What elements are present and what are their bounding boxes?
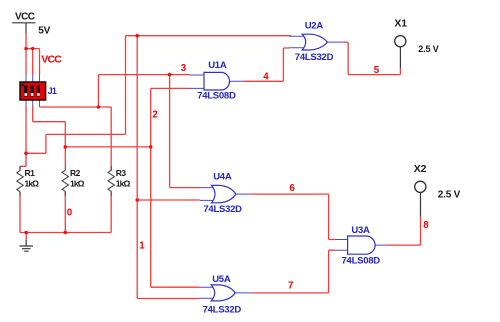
svg-text:X2: X2	[414, 163, 427, 175]
svg-text:2: 2	[152, 109, 157, 120]
svg-text:4: 4	[263, 71, 269, 82]
svg-text:U3A: U3A	[351, 225, 370, 236]
svg-text:1kΩ: 1kΩ	[70, 179, 85, 189]
svg-text:U4A: U4A	[213, 172, 232, 183]
svg-text:U5A: U5A	[212, 274, 231, 285]
svg-text:6: 6	[289, 183, 295, 194]
svg-text:74LS32D: 74LS32D	[295, 52, 334, 63]
svg-text:74LS32D: 74LS32D	[203, 305, 242, 316]
svg-text:3: 3	[181, 63, 187, 74]
svg-text:U1A: U1A	[208, 60, 227, 71]
svg-text:R3: R3	[116, 168, 127, 178]
svg-text:R2: R2	[70, 168, 81, 178]
svg-text:5V: 5V	[38, 25, 50, 36]
svg-text:74LS08D: 74LS08D	[342, 256, 381, 267]
svg-text:X1: X1	[394, 18, 407, 30]
svg-text:VCC: VCC	[15, 11, 35, 22]
svg-text:R1: R1	[25, 168, 36, 178]
svg-text:1: 1	[139, 240, 145, 251]
svg-text:J1: J1	[48, 86, 57, 96]
svg-text:1kΩ: 1kΩ	[116, 179, 131, 189]
svg-text:U2A: U2A	[305, 21, 324, 32]
svg-text:2.5 V: 2.5 V	[438, 190, 461, 201]
svg-text:1kΩ: 1kΩ	[25, 179, 40, 189]
svg-text:VCC: VCC	[41, 53, 62, 65]
svg-text:74LS08D: 74LS08D	[197, 91, 236, 102]
svg-text:0: 0	[67, 208, 72, 219]
svg-text:8: 8	[423, 220, 429, 231]
svg-text:5: 5	[374, 65, 380, 76]
svg-text:74LS32D: 74LS32D	[203, 204, 242, 215]
svg-text:7: 7	[288, 281, 293, 292]
svg-text:2.5 V: 2.5 V	[418, 44, 438, 54]
